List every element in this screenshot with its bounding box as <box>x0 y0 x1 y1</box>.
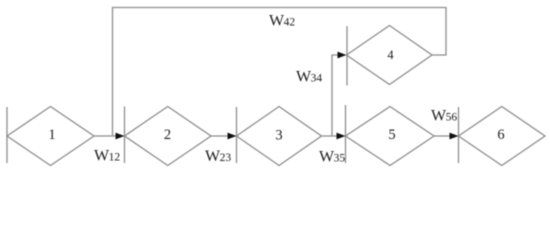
arrowhead into node 3 <box>228 133 237 140</box>
node 2 entry bar <box>124 107 126 164</box>
svg-text:W34: W34 <box>296 69 322 86</box>
node 4 entry bar <box>346 26 348 86</box>
wire arrow 5 to 6 <box>434 135 451 137</box>
node 5 entry bar <box>345 105 347 163</box>
wire arrow 2 to 3 <box>211 135 229 137</box>
svg-text:2: 2 <box>164 127 171 143</box>
node 1 entry bar <box>6 107 8 163</box>
arrowhead into node 6 <box>450 133 459 140</box>
arrowhead into node 5 <box>337 133 346 140</box>
wire arrow 3 to 5 <box>322 135 339 137</box>
wire arrow 1 to 2 <box>94 135 117 137</box>
node 4 diamond <box>347 26 433 85</box>
node 2 diamond <box>125 107 212 166</box>
node 3 diamond <box>237 107 322 166</box>
wire W34 from node 3 up to node 4 <box>332 55 339 136</box>
svg-text:3: 3 <box>275 128 282 144</box>
svg-text:1: 1 <box>48 127 55 143</box>
svg-text:W56: W56 <box>431 108 457 125</box>
svg-text:5: 5 <box>388 127 395 143</box>
arrowhead into node 2 <box>116 133 125 140</box>
svg-text:W12: W12 <box>94 148 120 165</box>
svg-text:W23: W23 <box>205 148 231 165</box>
svg-text:W42: W42 <box>269 13 295 30</box>
wire W42 from node 4 around top to node 2 <box>113 8 447 137</box>
node 5 diamond <box>346 107 435 166</box>
svg-text:6: 6 <box>497 127 504 143</box>
arrowhead into node 4 <box>338 52 347 59</box>
node 1 diamond <box>7 107 94 166</box>
node 6 diamond <box>459 107 546 166</box>
svg-text:W35: W35 <box>319 149 345 166</box>
svg-text:4: 4 <box>387 48 394 62</box>
node 3 entry bar <box>236 107 238 163</box>
node 6 entry bar <box>458 107 460 163</box>
